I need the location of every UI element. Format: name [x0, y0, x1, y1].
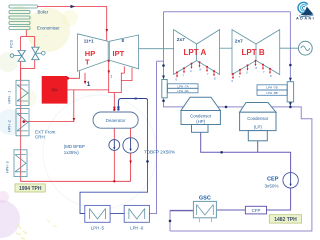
- svg-text:(HP): (HP): [196, 119, 205, 124]
- svg-text:3: 3: [246, 71, 248, 75]
- svg-text:LPT A: LPT A: [184, 48, 207, 57]
- svg-text:Economiser: Economiser: [37, 26, 60, 31]
- svg-text:FCS: FCS: [9, 40, 14, 48]
- svg-text:ADANI: ADANI: [296, 15, 315, 20]
- svg-text:HPH -3: HPH -3: [6, 161, 10, 173]
- svg-text:LPH -8A: LPH -8A: [177, 89, 188, 93]
- svg-text:8: 8: [199, 68, 201, 72]
- svg-text:6: 6: [175, 78, 177, 82]
- svg-text:8: 8: [214, 76, 216, 80]
- svg-text:LPH -6: LPH -6: [130, 226, 144, 231]
- svg-text:3x50%: 3x50%: [265, 183, 279, 188]
- svg-text:1482 TPH: 1482 TPH: [274, 217, 297, 223]
- svg-text:7: 7: [207, 72, 209, 76]
- svg-text:LPH -7A: LPH -7A: [177, 84, 188, 88]
- svg-text:3: 3: [190, 69, 192, 73]
- svg-text:LPH -7B: LPH -7B: [266, 86, 277, 90]
- svg-text:1: 1: [87, 81, 91, 88]
- svg-text:1x35%): 1x35%): [64, 150, 79, 155]
- svg-text:6: 6: [231, 79, 233, 83]
- svg-text:HPH - 1: HPH - 1: [8, 91, 12, 104]
- svg-text:GSC: GSC: [199, 195, 211, 201]
- svg-text:T: T: [85, 58, 90, 67]
- svg-text:CEP: CEP: [267, 177, 279, 183]
- svg-text:Deaerator: Deaerator: [106, 118, 127, 123]
- svg-text:LPT B: LPT B: [242, 48, 265, 57]
- svg-text:11+1: 11+1: [84, 38, 94, 43]
- svg-text:LPH -8B: LPH -8B: [266, 91, 277, 95]
- svg-text:EXT From: EXT From: [35, 129, 56, 134]
- svg-text:7: 7: [238, 75, 240, 79]
- svg-text:(LP): (LP): [254, 125, 263, 130]
- svg-text:CFP: CFP: [252, 208, 261, 213]
- svg-text:Boiler: Boiler: [38, 10, 49, 15]
- svg-text:7: 7: [263, 70, 265, 74]
- svg-text:8: 8: [270, 74, 272, 78]
- svg-text:IPT: IPT: [113, 49, 125, 58]
- svg-text:2x7: 2x7: [177, 37, 185, 43]
- svg-text:Condensor: Condensor: [247, 116, 269, 121]
- svg-text:(MD BFBP: (MD BFBP: [64, 144, 85, 149]
- svg-text:RH: RH: [51, 88, 57, 93]
- svg-text:7: 7: [182, 73, 184, 77]
- svg-text:HPH -2: HPH -2: [8, 120, 12, 132]
- svg-text:LPH -5: LPH -5: [91, 226, 105, 231]
- svg-text:2x7: 2x7: [235, 39, 243, 45]
- svg-text:Condensor: Condensor: [190, 114, 212, 119]
- svg-text:8: 8: [255, 66, 257, 70]
- svg-text:CRH: CRH: [35, 135, 45, 140]
- svg-text:1994 TPH: 1994 TPH: [19, 186, 42, 192]
- svg-text:TDBFP 2X50%: TDBFP 2X50%: [144, 149, 175, 154]
- svg-text:1: 1: [110, 75, 112, 79]
